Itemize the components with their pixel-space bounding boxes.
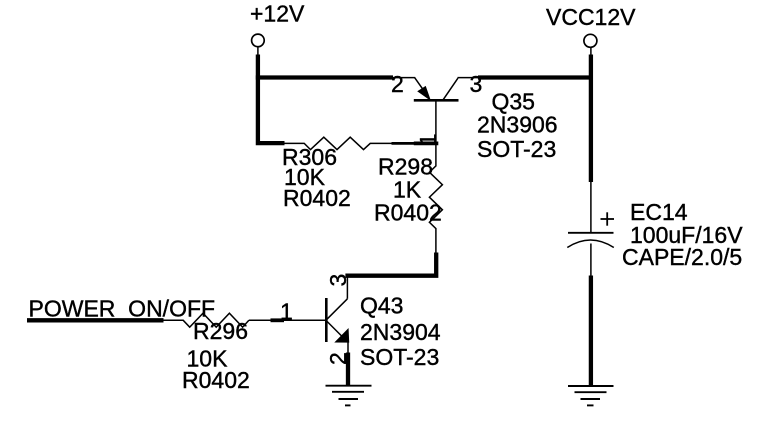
resistor R298 body [429, 144, 442, 254]
transistor Q43 emitter arrow (NPN, points out) [335, 329, 349, 342]
wire +12V vertical trunk [258, 55, 285, 144]
transistor Q43 collector diagonal [327, 299, 348, 320]
wire pin stub R306 pin2 [392, 142, 415, 145]
ground symbol under Q43 [326, 386, 372, 406]
wire VCC12V vertical thick upper [589, 55, 593, 183]
wire Q43 emitter lead thin [347, 342, 349, 355]
wire +12V terminal stem [257, 47, 259, 57]
wire top rail from +12V to Q35 emitter [256, 75, 393, 79]
transistor Q35 base bar [414, 99, 459, 102]
wire EC14 to ground thick [589, 276, 593, 386]
ground symbol under EC14 [568, 386, 614, 405]
svg-text:CAPE/2.0/5: CAPE/2.0/5 [622, 244, 742, 270]
svg-text:VCC12V: VCC12V [546, 4, 636, 30]
transistor Q43 emitter diagonal [327, 321, 343, 337]
svg-text:2: 2 [325, 352, 351, 365]
transistor Q35 collector diagonal [443, 78, 458, 100]
svg-text:R0402: R0402 [374, 200, 442, 226]
svg-text:1: 1 [280, 298, 293, 324]
wire Q43 emitter to ground thick [346, 353, 350, 386]
transistor Q35 emitter arrow (PNP, points into base) [418, 87, 430, 100]
wire pin stub R296 pin1 [271, 318, 285, 322]
wire EC14 bottom lead thin [590, 244, 592, 278]
wire R296 to Q43 base [284, 319, 326, 321]
svg-text:1: 1 [415, 133, 441, 146]
capacitor EC14 plus sign [601, 218, 615, 220]
svg-text:SOT-23: SOT-23 [477, 136, 556, 162]
svg-text:2N3904: 2N3904 [360, 319, 441, 345]
svg-text:+12V: +12V [250, 1, 305, 27]
wire EC14 top lead thin [590, 182, 592, 232]
capacitor EC14 curved bottom plate [567, 240, 614, 248]
svg-text:R0402: R0402 [182, 367, 250, 393]
svg-text:POWER_ON/OFF: POWER_ON/OFF [29, 296, 216, 322]
capacitor EC14 top plate [568, 232, 614, 234]
svg-text:3: 3 [470, 71, 483, 97]
svg-text:2N3906: 2N3906 [477, 112, 558, 138]
wire R296 right lead [249, 319, 271, 321]
resistor R296 body [164, 313, 249, 327]
power port +12V terminal circle [252, 34, 265, 47]
wire pin stub R298 pin1 [414, 141, 439, 145]
wire Q35 collector pin3 horizontal [458, 77, 481, 79]
wire Q43 collector pin3 vertical [346, 276, 348, 299]
svg-text:2: 2 [391, 71, 404, 97]
svg-text:SOT-23: SOT-23 [360, 344, 439, 370]
wire rail Q35 collector to VCC12V [478, 75, 593, 79]
transistor Q35 base lead [435, 100, 437, 144]
power port VCC12V terminal circle [584, 34, 597, 47]
wire VCC12V terminal stem [590, 47, 592, 57]
svg-text:Q43: Q43 [360, 292, 403, 318]
resistor R306 body [283, 137, 392, 149]
svg-text:R296: R296 [193, 318, 248, 344]
transistor Q35 emitter diagonal [415, 78, 429, 98]
svg-text:Q35: Q35 [492, 88, 535, 114]
svg-text:R0402: R0402 [283, 185, 351, 211]
transistor Q43 base bar [325, 298, 328, 342]
wire Q35 emitter pin2 horizontal [393, 77, 415, 79]
svg-text:3: 3 [325, 274, 351, 287]
wire R298 bottom thick elbow to Q43 collector [345, 253, 436, 276]
wire POWER_ON/OFF thick [27, 318, 164, 322]
